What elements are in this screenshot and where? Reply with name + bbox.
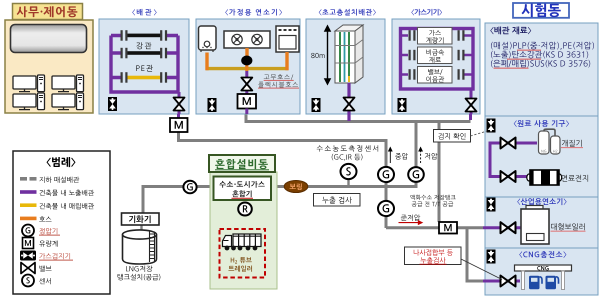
legend underline 정압기 xyxy=(39,234,60,237)
legend text 지하 매설배관 xyxy=(39,177,79,183)
materials line3 (은폐/매립)SUS... xyxy=(491,60,590,68)
mixer text 혼합기 xyxy=(232,190,251,197)
section box 가정용 연소기 (household burners) xyxy=(196,19,300,114)
label 중압 xyxy=(395,153,408,160)
CNG canopy xyxy=(515,265,572,290)
wire: low-pressure drop from line B to regulator G2 xyxy=(415,123,418,168)
label box 비금속 재료 xyxy=(418,47,453,64)
valve under hose junction xyxy=(241,78,252,91)
dashed leader from 검지확인 to detector xyxy=(471,131,488,136)
red underline under 플렉시블호스 xyxy=(258,88,299,89)
wire: stem from sensor S down to mixer line xyxy=(347,179,349,187)
wire: connector from vaporizer to LNG tank xyxy=(140,225,142,231)
mixer text 수소-도시가스 xyxy=(219,181,264,188)
boring ellipse 보링 xyxy=(284,181,308,193)
legend swatch underground pipe xyxy=(20,177,37,181)
computer workstation 4 xyxy=(52,93,84,110)
wire: mixer line from vaporizer riser across to regulator G2 stem xyxy=(143,182,416,213)
reformer vessels 개질기 xyxy=(539,129,561,154)
flow meter M1 under piping box xyxy=(170,118,188,132)
sensor S on mixer line xyxy=(341,164,357,179)
mixing facility title box xyxy=(209,155,275,172)
H2 tube trailer truck icon xyxy=(223,234,262,247)
trailer label 트레일러 xyxy=(228,266,252,272)
label PE관 xyxy=(136,65,153,72)
leader from 나사접합부 box to CNG valve xyxy=(461,259,502,280)
red arrow under 준저압 xyxy=(399,221,423,224)
legend text 호스 xyxy=(39,216,51,221)
office-control building body xyxy=(5,20,93,113)
flow meter M2 in burner box xyxy=(238,94,257,109)
reformer vessel label NG xyxy=(541,150,546,153)
section box 배관 (piping) xyxy=(99,19,189,114)
legend text 유량계 xyxy=(39,240,57,246)
purple drop from hose junction to valve xyxy=(245,71,248,94)
hose horizontal bar (gold) xyxy=(206,67,289,70)
flange pair left pipe2 xyxy=(121,48,123,59)
legend icon flow meter M xyxy=(23,238,34,249)
regulator G4 on mixer line (left) xyxy=(183,181,196,194)
tower internal riser pipes xyxy=(340,32,349,82)
red underline 은폐/매립 xyxy=(494,68,529,69)
gas detector in CNG box xyxy=(487,250,496,264)
legend icon regulator G xyxy=(22,225,34,237)
valve to boiler xyxy=(501,222,516,233)
regulator R under mixer xyxy=(238,203,252,216)
red underline 탄소강관 xyxy=(507,59,541,60)
wire: underground line B from flow meter M2 across to gas-appliance valve drop xyxy=(246,112,471,122)
section title 가스기기 xyxy=(411,9,442,16)
flange pair left pipe3 xyxy=(121,72,123,83)
wire: CNG branch down and right to CNG station box xyxy=(467,228,483,281)
label LNG저장 xyxy=(126,266,152,272)
label 수소농도측정센서 xyxy=(317,145,378,152)
valve under gas devices box xyxy=(466,99,477,112)
purple drop from tower to valve xyxy=(347,83,350,114)
hose center stub xyxy=(245,62,248,71)
legend text 밸브 xyxy=(40,265,52,271)
valve under tower xyxy=(344,98,355,111)
PE pipe specimen (yellow) xyxy=(127,76,161,80)
regulator G3 (liquefied hydrogen line) xyxy=(378,201,394,216)
label 공급 전 T/T 공급 xyxy=(412,201,454,206)
hydrogen-citygas mixer box xyxy=(214,177,272,201)
detection check box 검지 확인 xyxy=(434,130,471,143)
valve to reformer xyxy=(501,138,516,149)
underline mixing title xyxy=(215,169,269,170)
gas detector in piping box xyxy=(108,97,117,111)
mixing facility title 혼합설비동 xyxy=(215,159,268,169)
flange pair row1 left xyxy=(409,30,411,41)
legend underline 가스검지기 xyxy=(39,259,73,262)
wire: branch down from line B to flow meter M3 xyxy=(438,122,441,223)
flange pair right pipe2 xyxy=(160,48,162,59)
section title 배관 xyxy=(132,9,156,16)
red underline 대형보일러 xyxy=(551,230,586,233)
purple drop from piping frame to valve xyxy=(178,92,181,114)
gas detector in burner box xyxy=(208,98,217,112)
legend swatch hose xyxy=(20,217,37,221)
test building column: pipe materials box xyxy=(485,23,598,116)
purple feed to boiler xyxy=(483,226,521,229)
gas detector in fuel-use box xyxy=(487,119,496,133)
legend icon sensor S xyxy=(22,275,34,287)
reformer vessel label H2 xyxy=(553,150,557,153)
vaporizer box 기화기 xyxy=(122,213,160,225)
legend text 정압기 xyxy=(39,228,57,234)
test building title 시험동 xyxy=(522,4,561,18)
tower floor lines xyxy=(335,40,363,64)
test building column: CNG station box xyxy=(485,248,598,295)
mixing facility green panel xyxy=(210,172,277,289)
section title 원료 사용 기구 xyxy=(514,120,569,127)
label 플렉시블호스 xyxy=(258,82,298,88)
large boiler 대형보일러 xyxy=(521,206,549,245)
wire: underground line A from flow meter M1 to regulator G1 (medium pressure) xyxy=(179,131,387,168)
valve to CNG station xyxy=(501,276,516,287)
valve under piping box xyxy=(174,98,185,111)
label 저압 xyxy=(425,153,438,159)
section title 초고층설치배관 xyxy=(319,9,376,16)
label 80m xyxy=(311,53,324,58)
materials line2 (노출)탄소강관... xyxy=(491,51,588,59)
80m double arrow xyxy=(325,26,330,84)
purple feed to CNG station xyxy=(483,280,520,283)
valve to fuel cell xyxy=(501,171,516,182)
legend swatch exposed pipe xyxy=(20,190,37,194)
regulator G2 (low pressure) xyxy=(408,167,424,182)
purple drop from gas devices frame to valve xyxy=(470,89,473,114)
regulator G1 (medium pressure) xyxy=(378,167,394,182)
label box 가스 계량기 xyxy=(418,28,453,45)
label 액화수소 저장탱크 xyxy=(410,195,455,200)
legend icon gas detector xyxy=(20,251,36,261)
gas detector in high-rise box xyxy=(312,98,321,112)
flange pair right pipe3 xyxy=(160,72,162,83)
wire: boiler feed line from G3 through flow meter M3 to industrial burner box xyxy=(386,226,483,229)
flange pair left pipe1 xyxy=(121,30,123,41)
flange pair row1 right xyxy=(458,30,460,41)
label box 밸브/이음관 xyxy=(418,67,453,84)
steel pipe specimen 2 (black) xyxy=(127,51,161,55)
label 탱크설치(공급) xyxy=(118,274,161,281)
section title CNG충전소 xyxy=(519,251,566,258)
gas stove appliance xyxy=(224,31,270,48)
gas detector in gas devices box xyxy=(398,98,407,112)
CNG dispenser 1 xyxy=(529,276,542,290)
label (GC,IR 등) xyxy=(332,154,363,161)
fuel cell body 연료전지 xyxy=(527,170,562,185)
gas oven appliance xyxy=(276,26,299,52)
legend text 건축물 내 매립배관 xyxy=(40,203,94,209)
wire: stem from mixer box down through regulator R to tube-trailer box xyxy=(244,200,246,229)
section box 가스기기 (gas devices) xyxy=(392,19,480,114)
junction black ellipse on hose xyxy=(241,56,252,66)
gas devices purple frame xyxy=(401,29,474,90)
red underline 개질기 xyxy=(561,146,583,149)
red underline 중·저압 xyxy=(517,50,541,51)
trailer label H2 튜브 xyxy=(231,257,252,263)
flange pair row2 left xyxy=(409,50,411,61)
wire: vertical chain G1 - mixer line - G3 - boiler line xyxy=(385,181,388,228)
leak test box 누출 검사 xyxy=(314,194,361,207)
red underline 혼합기 xyxy=(232,197,254,200)
up arrow at 중압 xyxy=(389,148,392,164)
test building title box xyxy=(513,3,569,18)
legend title 범례 xyxy=(46,157,75,167)
gas detector in industrial box xyxy=(487,198,496,212)
legend text 센서 xyxy=(39,278,51,284)
purple stub under M2 xyxy=(245,109,248,115)
red underline 누출검사 xyxy=(420,263,447,266)
computer workstation 1 xyxy=(13,75,45,92)
legend text 가스검지기 xyxy=(39,253,70,259)
branch stubs rows xyxy=(400,36,473,75)
red underline under 고무호스 xyxy=(264,80,294,81)
flange pair row3 left xyxy=(409,69,411,80)
label 고무호스/ xyxy=(264,74,293,80)
hose from water heater xyxy=(207,48,287,70)
label 개질기 xyxy=(562,140,582,147)
pipe materials heading 〈배관 재료〉 xyxy=(490,27,531,35)
purple stub box-bottom to M1 xyxy=(177,114,180,118)
piping test loop purple frame xyxy=(111,36,178,93)
flange pair row2 right xyxy=(458,50,460,61)
purple trunk of fuel-use devices xyxy=(490,143,537,177)
water heater appliance xyxy=(199,26,217,52)
high-rise tower 3D shell xyxy=(335,25,363,83)
computer workstation 3 xyxy=(13,93,45,110)
section title 산업용연소기 xyxy=(517,198,566,205)
label 강관 xyxy=(137,42,152,49)
section title 가정용 연소기 xyxy=(225,9,282,16)
test building column: industrial burner box xyxy=(485,197,598,248)
legend box xyxy=(13,151,110,294)
section box 초고층설치배관 (high-rise piping) xyxy=(306,19,385,114)
H2 tube trailer red dashed box xyxy=(220,229,266,278)
steel pipe specimen 1 (black) xyxy=(127,34,161,38)
flow meter M3 on boiler line xyxy=(439,222,457,234)
flange pair right pipe1 xyxy=(160,30,162,41)
materials line1 (매설)PLP... xyxy=(491,42,594,50)
label 대형보일러 xyxy=(551,223,585,230)
office-control building title text 사무·제어동 xyxy=(17,6,78,17)
label 연료전지 xyxy=(562,175,589,182)
test building column: fuel-use devices box xyxy=(485,116,598,197)
CNG dispenser 2 xyxy=(546,276,559,290)
legend swatch embedded pipe xyxy=(20,203,37,207)
computer workstation 2 xyxy=(52,75,84,92)
label 준저압 xyxy=(401,215,420,221)
flange pair row3 right xyxy=(458,69,460,80)
screw joint leak test box 나사접합부 xyxy=(405,247,462,265)
dashed up arrow at 저압 xyxy=(419,148,422,164)
legend icon valve xyxy=(21,263,35,274)
purple stub gas-devices box-bottom to line B xyxy=(469,114,472,120)
office-control building title box xyxy=(13,4,83,20)
purple stub tower box-bottom to line B xyxy=(347,114,350,121)
legend text 건축물 내 노출배관 xyxy=(40,190,94,196)
LNG tank cylinder xyxy=(123,230,157,264)
